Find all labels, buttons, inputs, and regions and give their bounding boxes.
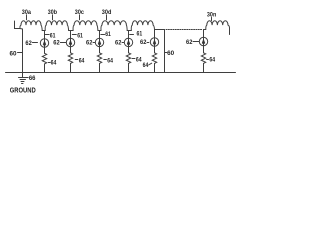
svg-text:66: 66 (29, 76, 36, 82)
svg-text:62: 62 (53, 40, 60, 46)
wire input hook (15, 21, 21, 29)
wire node 2 (69, 30, 74, 32)
resistor 64 section6 (201, 53, 205, 64)
svg-text:60: 60 (167, 51, 175, 57)
wire node 3 (98, 30, 101, 32)
label 64 section4 (132, 58, 135, 60)
wire circle to resistor section4 (128, 47, 130, 53)
label 64 section6 (207, 59, 209, 61)
wire node5 to 60 line (155, 29, 165, 31)
svg-text:61: 61 (105, 32, 111, 38)
svg-text:64: 64 (79, 58, 85, 64)
svg-text:64: 64 (51, 60, 57, 66)
resistor 64 section5 (152, 53, 156, 64)
svg-text:64: 64 (136, 58, 142, 64)
wire circle to resistor section1 (44, 47, 46, 53)
svg-text:62: 62 (25, 41, 32, 47)
current source 62 section4 (124, 38, 132, 46)
wire node 4 (127, 30, 131, 32)
leader 60 left (18, 52, 23, 54)
label 64 section3 (104, 59, 107, 61)
ground (22, 73, 24, 78)
wire tap 5 (154, 30, 156, 38)
wire resistor to bus section3 (99, 63, 101, 72)
svg-text:62: 62 (86, 40, 93, 46)
wire circle to resistor section6 (203, 46, 205, 53)
inductor 30d (101, 21, 127, 31)
tick 30n (211, 17, 213, 20)
wire node 60 left (20, 28, 23, 31)
svg-text:62: 62 (186, 40, 193, 46)
current source 62 section5 (150, 38, 158, 46)
wire resistor to bus section1 (44, 64, 46, 73)
leader 60 right (165, 52, 167, 54)
resistor 64 section3 (97, 53, 101, 64)
wire circle to resistor section2 (70, 47, 72, 53)
inductor 30a (20, 21, 42, 31)
svg-text:62: 62 (115, 40, 122, 46)
svg-text:64: 64 (107, 58, 113, 64)
svg-text:60: 60 (10, 51, 18, 57)
label 64 section1 (48, 62, 50, 64)
label 61 section2 (72, 34, 76, 36)
inductor 30n (204, 21, 230, 30)
wire tap 3 (99, 31, 101, 39)
svg-text:GROUND: GROUND (10, 86, 37, 95)
wire dashed continuation (166, 29, 203, 31)
wire circle to resistor section5 (154, 46, 156, 53)
inductor section5 (131, 21, 154, 31)
wire tap 4 (128, 31, 130, 39)
ground bus (6, 72, 236, 74)
svg-text:62: 62 (140, 40, 147, 46)
label 61 section1 (45, 34, 49, 36)
wire tap 2 (70, 31, 72, 39)
label 61 section3 (101, 34, 105, 36)
tick 30b (52, 15, 54, 20)
wire output hook (229, 28, 231, 35)
wire tap 1 (44, 31, 46, 39)
svg-text:61: 61 (137, 32, 143, 38)
svg-text:64: 64 (143, 63, 149, 69)
label 64 section2 (75, 59, 78, 61)
current source 62 section1 (40, 39, 48, 47)
tick 30a (26, 15, 28, 20)
tick 30d (106, 15, 108, 20)
label 61 section4 (130, 34, 134, 36)
resistor 64 section2 (68, 53, 72, 64)
wire resistor to bus section4 (128, 63, 130, 72)
wire 60 right vertical (164, 30, 166, 73)
current source 62 section2 (66, 38, 74, 46)
wire resistor to bus section2 (70, 63, 72, 72)
wire tap 6 (203, 30, 205, 38)
current source 62 section6 (199, 37, 207, 45)
wire node 1 (42, 30, 45, 32)
wire 60 left vertical (22, 29, 24, 73)
current source 62 section3 (95, 38, 103, 46)
svg-text:61: 61 (77, 33, 83, 39)
inductor 30c (73, 21, 98, 31)
inductor 30b (45, 21, 68, 31)
resistor 64 section4 (126, 53, 130, 64)
resistor 64 section1 (42, 53, 46, 64)
tick 30c (79, 15, 81, 20)
svg-text:61: 61 (50, 33, 56, 39)
wire resistor to bus section6 (203, 63, 205, 72)
label 66 (27, 77, 29, 79)
svg-text:64: 64 (209, 57, 215, 63)
wire resistor to bus section5 (154, 63, 156, 72)
wire circle to resistor section3 (99, 47, 101, 53)
